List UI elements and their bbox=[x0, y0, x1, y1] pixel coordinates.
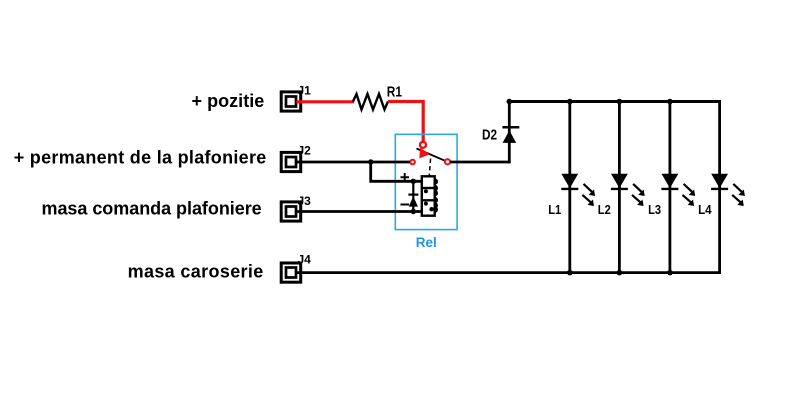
flyback diode bbox=[412, 181, 414, 211]
LED L1 bbox=[548, 102, 595, 273]
relay box Rel bbox=[395, 134, 457, 229]
minus sign bbox=[401, 204, 410, 206]
svg-text:J4: J4 bbox=[298, 253, 312, 267]
svg-text:masa caroserie: masa caroserie bbox=[128, 262, 264, 282]
diode D2 bbox=[503, 130, 517, 143]
wire junction down to coil + bbox=[371, 162, 422, 181]
relay switch arm bbox=[417, 149, 448, 162]
top rail bbox=[509, 100, 721, 103]
relay common contact bbox=[420, 142, 426, 148]
relay coil bbox=[422, 176, 437, 215]
relay NO contact bbox=[445, 159, 450, 164]
connector J3 bbox=[281, 194, 311, 221]
svg-text:+ pozitie: + pozitie bbox=[192, 91, 265, 111]
junction L2 top bbox=[617, 99, 623, 105]
relay arm arrowhead bbox=[419, 148, 429, 159]
svg-text:J2: J2 bbox=[298, 144, 312, 158]
junction L2 bottom bbox=[617, 270, 623, 276]
wire J2 to NC contact bbox=[296, 161, 410, 164]
svg-text:L1: L1 bbox=[548, 202, 561, 217]
relay actuator dashed line bbox=[429, 159, 430, 177]
junction L3 top bbox=[667, 99, 673, 105]
wire J3 to coil - bbox=[296, 210, 422, 213]
svg-text:J3: J3 bbox=[298, 194, 312, 208]
junction L1 top bbox=[567, 99, 573, 105]
wire red J1 to resistor bbox=[296, 100, 354, 103]
LED L2 bbox=[598, 102, 645, 273]
junction coil - / diode bbox=[411, 209, 416, 214]
svg-text:R1: R1 bbox=[387, 84, 402, 100]
junction J2/coil bbox=[368, 159, 373, 164]
svg-text:J1: J1 bbox=[298, 84, 312, 98]
junction D2/top rail bbox=[507, 99, 513, 105]
LED L3 bbox=[648, 102, 695, 273]
junction coil + / diode bbox=[411, 179, 416, 184]
svg-text:L2: L2 bbox=[598, 202, 611, 217]
junction L1 bottom bbox=[567, 270, 573, 276]
svg-text:L4: L4 bbox=[698, 202, 712, 217]
svg-text:masa comanda plafoniere: masa comanda plafoniere bbox=[42, 199, 262, 219]
connector J2 bbox=[281, 144, 311, 172]
wire NO contact to D2 branch bbox=[450, 161, 509, 164]
connector J1 bbox=[281, 84, 311, 111]
connector J4 bbox=[281, 253, 311, 283]
resistor R1 bbox=[353, 94, 388, 110]
svg-text:+ permanent de la plafoniere: + permanent de la plafoniere bbox=[14, 148, 267, 168]
bottom rail (masa) bbox=[296, 271, 721, 274]
svg-text:D2: D2 bbox=[482, 128, 497, 144]
wire D2 branch vertical bbox=[508, 102, 511, 164]
relay NC contact bbox=[410, 160, 415, 165]
svg-text:Rel: Rel bbox=[416, 235, 437, 250]
svg-text:L3: L3 bbox=[648, 202, 661, 217]
wire red resistor to relay common bbox=[388, 102, 423, 142]
plus sign bbox=[401, 173, 410, 182]
LED L4 bbox=[698, 100, 745, 274]
junction L3 bottom bbox=[667, 270, 673, 276]
